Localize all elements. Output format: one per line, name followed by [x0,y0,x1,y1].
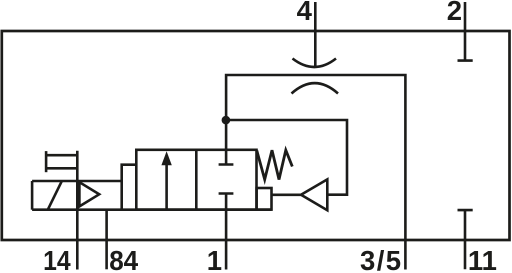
port 2 line with blocked end [458,2,473,61]
bottom blocked port T / port 1 line [219,194,234,270]
solenoid diagonal [48,181,62,209]
arrow head [161,151,171,165]
port 11 blocked stub [458,210,473,269]
enclosure frame [2,31,510,240]
svg-text:4: 4 [297,0,313,26]
common bottom edge [32,208,271,211]
step box [122,165,137,210]
divider / port 14 line [76,151,79,270]
manual override rungs [46,155,77,168]
junction node [222,116,231,125]
pilot signal line to amplifier [226,120,347,195]
port 4 line [314,2,317,66]
top blocked port T [219,120,234,165]
svg-text:3/5: 3/5 [360,245,402,273]
line apex to sensing box [272,194,302,197]
flow restrictor upper arc [293,59,337,68]
amplifier triangle left-pointing [301,179,327,210]
flow restrictor lower arc [292,83,339,93]
svg-text:1: 1 [207,245,222,273]
pilot triangle right-pointing [79,182,99,206]
valve divider [195,150,198,210]
svg-text:84: 84 [109,245,139,273]
svg-text:14: 14 [43,245,71,273]
svg-text:11: 11 [468,245,497,273]
arrow shaft left cell [165,163,168,210]
manual override left vertical [45,151,48,172]
solenoid box left edge [31,181,34,210]
port 84 line [105,210,108,270]
svg-text:2: 2 [447,0,462,26]
valve body [136,150,256,210]
inner pilot rectangle top and right side / port 3/5 line [226,75,405,270]
solenoid + pilot box top edge [32,180,122,183]
sensing small box [257,188,272,210]
return spring [257,150,293,179]
